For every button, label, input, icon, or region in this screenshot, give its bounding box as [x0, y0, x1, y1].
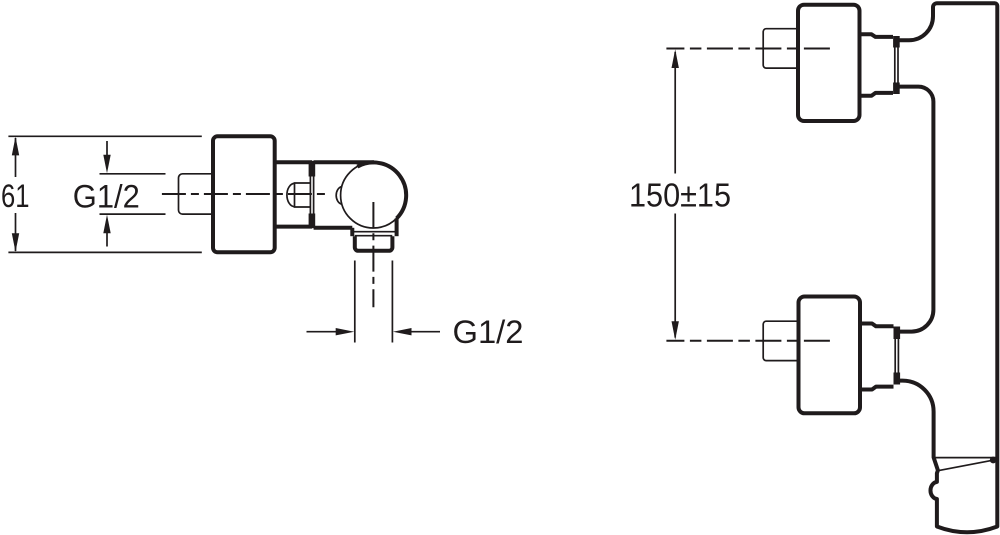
bottom escutcheon junction lower: [893, 373, 900, 385]
G1/2 inlet bottom extension line: [100, 213, 166, 215]
top escutcheon junction lower: [893, 83, 900, 95]
inlet stub side view: [179, 174, 215, 214]
dimension 150 arrow down: [672, 321, 679, 340]
ball housing thin circle: [341, 162, 407, 228]
top neck bottom edge: [860, 93, 893, 96]
dimension 61 line upper segment: [15, 138, 17, 177]
bottom fitting junction dot: [990, 457, 997, 464]
dimension 61 arrow down: [12, 233, 19, 252]
vertical centerline outlet: [372, 202, 374, 307]
bottom fitting separation line: [934, 457, 997, 459]
bottom escutcheon junction upper: [893, 327, 900, 340]
outlet nut: [355, 236, 393, 251]
bottom knob front view: [799, 297, 861, 414]
outlet dim arrow right: [336, 328, 355, 335]
outlet flange bottom line: [355, 235, 393, 237]
G1/2 inlet arrow up head: [103, 215, 110, 234]
ball left bump: [336, 187, 342, 205]
bottom escutcheon plate lines: [894, 338, 896, 375]
top inlet stub front view: [763, 29, 800, 68]
dimension 150 arrow up: [672, 49, 679, 68]
G1/2 inlet top extension line: [100, 173, 166, 175]
escutcheon junction bottom: [309, 214, 316, 229]
body left edge between arms: top arm bottom, bar, bottom arm top: [896, 87, 933, 332]
G1/2 inlet arrow down head: [103, 155, 110, 174]
outlet dim left shaft: [307, 331, 339, 333]
outlet right extension line: [391, 261, 393, 343]
cartridge dome arc: [287, 183, 295, 206]
svg-text:G1/2: G1/2: [73, 178, 140, 214]
G1/2 inlet arrow up shaft: [106, 231, 108, 247]
outlet flange left cap: [350, 228, 354, 236]
bottom neck top edge: [861, 324, 894, 327]
outlet flange top line: [352, 231, 396, 233]
dimension 61 top extension line: [8, 135, 201, 137]
outlet dim right shaft: [409, 331, 440, 333]
dimension 61 arrow up: [12, 137, 19, 156]
handle knob side view: [213, 136, 275, 252]
svg-text:61: 61: [1, 178, 30, 214]
top escutcheon junction upper: [893, 36, 900, 48]
top neck top edge: [860, 34, 893, 37]
dimension 61 line lower segment: [15, 213, 17, 251]
top escutcheon plate lines: [894, 47, 896, 84]
escutcheon plate edge lines: [309, 175, 311, 216]
ball housing thick arc: [357, 162, 406, 218]
valve body top edge: [314, 160, 374, 164]
escutcheon junction top: [309, 161, 316, 177]
dimension 150 line lower segment: [674, 214, 676, 338]
neck bottom edge: [275, 225, 312, 229]
cartridge nut side view: [295, 183, 311, 207]
body outline: top arm over top, right edge, bottom fitting, lower left edge, bottom arm bottom: [896, 3, 997, 532]
outlet flange right cap: [395, 218, 399, 236]
bottom axis centerline: [666, 340, 831, 342]
bottom fitting chamfer line: [937, 460, 994, 471]
horizontal centerline left view: [162, 193, 325, 195]
neck top edge: [275, 160, 312, 164]
top knob front view: [798, 5, 860, 121]
bottom inlet stub front view: [763, 321, 800, 360]
G1/2 inlet arrow down shaft: [106, 141, 108, 157]
valve body bottom edge: [314, 226, 353, 230]
outlet left extension line: [354, 261, 356, 343]
dimension 150 line upper segment: [674, 52, 676, 174]
outlet dim arrow left: [393, 328, 412, 335]
svg-text:G1/2: G1/2: [453, 314, 524, 350]
bottom neck bottom edge: [861, 387, 894, 390]
svg-text:150±15: 150±15: [629, 177, 731, 214]
dimension 61 bottom extension line: [8, 251, 201, 253]
top axis centerline: [666, 48, 831, 50]
